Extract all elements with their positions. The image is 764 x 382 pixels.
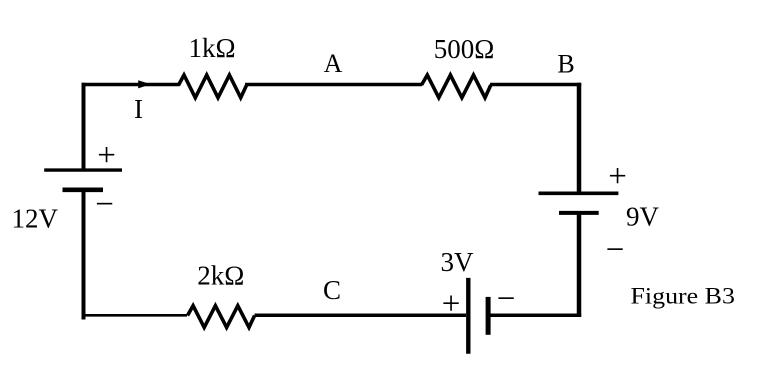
battery V2 9V negative plate: [559, 211, 599, 215]
wire right vertical lower segment: [577, 213, 582, 317]
svg-text:500Ω: 500Ω: [434, 34, 495, 64]
svg-text:C: C: [323, 275, 341, 305]
wire top middle segment: [245, 83, 422, 87]
svg-text:+: +: [97, 138, 116, 174]
svg-text:B: B: [557, 50, 574, 79]
battery V1 12V negative plate: [63, 188, 104, 193]
resistor R1 1kohm zigzag: [178, 75, 246, 98]
svg-text:9V: 9V: [626, 202, 660, 232]
svg-text:I: I: [134, 94, 143, 124]
svg-text:A: A: [324, 49, 343, 78]
wire left vertical upper segment: [82, 83, 86, 170]
svg-text:3V: 3V: [441, 247, 475, 277]
battery V3 3V negative plate: [486, 297, 491, 335]
wire bottom-left horizontal segment: [82, 314, 188, 317]
battery V3 3V positive plate: [466, 278, 470, 354]
svg-text:+: +: [608, 159, 627, 195]
wire bottom-right horizontal segment: [490, 314, 581, 318]
wire top-left horizontal segment: [82, 83, 180, 87]
resistor R3 2kohm zigzag: [188, 306, 255, 328]
battery V2 9V positive plate: [539, 192, 619, 196]
svg-text:2kΩ: 2kΩ: [197, 261, 244, 291]
svg-text:Figure B3: Figure B3: [631, 284, 735, 309]
current arrow on top wire: [138, 80, 150, 88]
wire top-right horizontal segment: [490, 83, 581, 87]
svg-text:−: −: [606, 232, 625, 268]
svg-text:−: −: [95, 187, 114, 223]
svg-text:1kΩ: 1kΩ: [188, 33, 235, 63]
wire bottom middle segment: [255, 314, 467, 318]
resistor R2 500ohm zigzag: [422, 75, 491, 98]
svg-text:−: −: [497, 281, 516, 317]
svg-text:12V: 12V: [12, 203, 59, 233]
svg-text:+: +: [442, 286, 461, 322]
wire right vertical upper segment: [577, 83, 582, 194]
wire left vertical lower segment: [82, 190, 86, 320]
battery V1 12V positive plate: [44, 168, 122, 171]
